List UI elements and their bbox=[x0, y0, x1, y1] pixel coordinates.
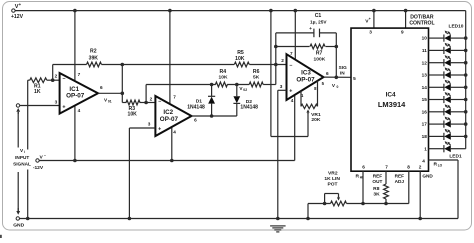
svg-text:1N4148: 1N4148 bbox=[187, 105, 205, 111]
svg-text:10K: 10K bbox=[235, 56, 245, 62]
svg-text:3: 3 bbox=[55, 99, 58, 104]
svg-text:REF: REF bbox=[373, 173, 383, 178]
svg-text:10: 10 bbox=[422, 36, 428, 41]
svg-text:0: 0 bbox=[337, 85, 339, 89]
svg-text:10K: 10K bbox=[127, 112, 137, 118]
svg-text:R6: R6 bbox=[253, 69, 260, 75]
svg-text:IC2: IC2 bbox=[163, 109, 173, 116]
svg-text:CONTROL: CONTROL bbox=[409, 21, 434, 27]
svg-text:5: 5 bbox=[353, 76, 356, 81]
svg-text:16: 16 bbox=[422, 109, 428, 114]
svg-text:GND: GND bbox=[13, 222, 24, 228]
svg-text:3: 3 bbox=[369, 30, 372, 35]
svg-text:i: i bbox=[24, 150, 25, 154]
svg-text:1K LIN: 1K LIN bbox=[324, 176, 340, 182]
svg-text:−: − bbox=[289, 63, 292, 69]
svg-text:VR2: VR2 bbox=[328, 170, 338, 176]
svg-text:4: 4 bbox=[291, 98, 294, 103]
svg-text:C1: C1 bbox=[315, 13, 322, 19]
svg-text:7: 7 bbox=[78, 72, 81, 77]
svg-text:OP-07: OP-07 bbox=[66, 93, 85, 100]
svg-text:OP-07: OP-07 bbox=[160, 116, 179, 123]
svg-text:ADJ: ADJ bbox=[395, 179, 405, 184]
svg-text:13: 13 bbox=[422, 73, 428, 78]
svg-text:−: − bbox=[62, 77, 65, 83]
svg-text:1μ, 25V: 1μ, 25V bbox=[310, 19, 327, 24]
svg-text:4: 4 bbox=[422, 158, 425, 163]
svg-text:20K: 20K bbox=[311, 117, 320, 123]
svg-text:2: 2 bbox=[150, 97, 153, 102]
svg-text:01: 01 bbox=[108, 99, 112, 103]
svg-text:7: 7 bbox=[290, 51, 293, 56]
svg-text:R2: R2 bbox=[90, 48, 97, 54]
svg-text:2: 2 bbox=[419, 164, 422, 169]
svg-text:LO: LO bbox=[438, 164, 443, 168]
svg-text:6: 6 bbox=[326, 71, 329, 76]
svg-text:LED10: LED10 bbox=[449, 23, 464, 29]
svg-text:IC3: IC3 bbox=[301, 69, 311, 76]
svg-text:3K: 3K bbox=[373, 192, 380, 198]
svg-text:+: + bbox=[369, 17, 371, 21]
svg-text:7: 7 bbox=[385, 165, 388, 170]
svg-text:LM3914: LM3914 bbox=[378, 100, 406, 109]
svg-text:OP-07: OP-07 bbox=[296, 76, 315, 83]
svg-text:9: 9 bbox=[401, 30, 404, 35]
svg-text:1K: 1K bbox=[34, 89, 41, 95]
svg-text:-12V: -12V bbox=[33, 165, 44, 171]
svg-text:14: 14 bbox=[422, 85, 428, 90]
svg-text:R4: R4 bbox=[220, 69, 227, 75]
svg-text:5K: 5K bbox=[253, 74, 260, 80]
svg-text:LED1: LED1 bbox=[449, 153, 462, 159]
svg-text:1: 1 bbox=[424, 146, 427, 151]
svg-text:SIGNAL: SIGNAL bbox=[13, 161, 31, 166]
svg-text:12: 12 bbox=[422, 60, 428, 65]
svg-text:OUT: OUT bbox=[372, 179, 382, 184]
svg-text:6: 6 bbox=[100, 85, 103, 90]
svg-text:1N4148: 1N4148 bbox=[240, 105, 258, 111]
svg-text:17: 17 bbox=[422, 122, 428, 127]
svg-text:39K: 39K bbox=[89, 55, 99, 61]
svg-text:INPUT: INPUT bbox=[15, 155, 29, 160]
svg-text:REF: REF bbox=[395, 173, 405, 178]
svg-text:3: 3 bbox=[148, 121, 151, 126]
svg-text:IN: IN bbox=[340, 70, 345, 75]
svg-text:4: 4 bbox=[78, 108, 81, 113]
svg-text:3: 3 bbox=[280, 84, 283, 89]
svg-text:GND: GND bbox=[422, 173, 433, 178]
svg-text:6: 6 bbox=[194, 117, 197, 122]
svg-text:15: 15 bbox=[422, 97, 428, 102]
svg-text:18: 18 bbox=[422, 134, 428, 139]
svg-text:4: 4 bbox=[173, 130, 176, 135]
svg-text:11: 11 bbox=[422, 48, 427, 53]
svg-text:7: 7 bbox=[173, 94, 176, 99]
svg-text:+: + bbox=[289, 89, 292, 95]
svg-text:POT: POT bbox=[327, 182, 337, 188]
svg-text:8: 8 bbox=[407, 165, 410, 170]
svg-text:+12V: +12V bbox=[11, 14, 24, 20]
svg-text:6: 6 bbox=[362, 165, 365, 170]
svg-text:SIG: SIG bbox=[339, 65, 347, 70]
svg-text:R8: R8 bbox=[373, 186, 380, 192]
svg-text:02: 02 bbox=[243, 88, 247, 92]
svg-text:+: + bbox=[158, 126, 161, 132]
svg-text:+: + bbox=[62, 104, 65, 110]
svg-text:−: − bbox=[158, 99, 161, 105]
svg-text:2: 2 bbox=[281, 58, 284, 63]
svg-text:2: 2 bbox=[55, 74, 58, 79]
svg-text:IC4: IC4 bbox=[386, 91, 396, 98]
svg-text:R7: R7 bbox=[316, 51, 323, 57]
svg-text:10K: 10K bbox=[218, 74, 227, 80]
svg-text:+: + bbox=[309, 27, 312, 32]
svg-text:100K: 100K bbox=[314, 56, 326, 62]
